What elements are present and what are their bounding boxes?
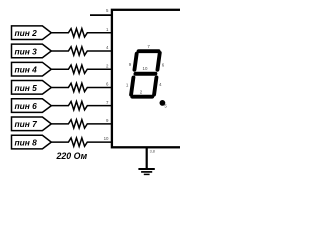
net flag пин 5 xyxy=(12,81,52,95)
pin 5 stub xyxy=(90,14,112,16)
svg-text:220 Ом: 220 Ом xyxy=(56,151,88,161)
wire / resistor R8 (пин 8) xyxy=(51,138,112,146)
segment a xyxy=(138,49,158,53)
net flag пин 2 xyxy=(12,26,52,40)
wire / resistor R2 (пин 2) xyxy=(51,29,112,37)
net flag пин 8 xyxy=(12,135,52,149)
decimal point xyxy=(160,100,166,106)
svg-text:пин 3: пин 3 xyxy=(15,46,38,56)
svg-text:4: 4 xyxy=(106,45,109,50)
segment d xyxy=(132,95,152,99)
svg-text:5: 5 xyxy=(106,8,109,13)
svg-text:пин 2: пин 2 xyxy=(15,28,38,38)
svg-text:9: 9 xyxy=(106,118,109,123)
svg-text:пин 4: пин 4 xyxy=(15,65,38,75)
wire / resistor R3 (пин 3) xyxy=(51,47,112,55)
segment f xyxy=(134,54,136,70)
svg-text:7: 7 xyxy=(106,100,109,105)
svg-text:1: 1 xyxy=(106,27,109,32)
wire / resistor R6 (пин 6) xyxy=(51,101,112,109)
svg-text:3,8: 3,8 xyxy=(150,150,155,154)
svg-text:10: 10 xyxy=(104,136,109,141)
7-segment digit xyxy=(131,51,160,97)
common cathode wire xyxy=(146,147,148,168)
ground xyxy=(138,169,154,174)
svg-text:6: 6 xyxy=(106,82,109,87)
svg-text:2: 2 xyxy=(106,63,109,68)
segment g xyxy=(135,72,155,76)
segment c xyxy=(154,77,156,94)
wire / resistor R7 (пин 7) xyxy=(51,120,112,128)
7-segment display U1 body xyxy=(112,10,212,148)
svg-text:пин 8: пин 8 xyxy=(15,137,38,147)
net flag пин 7 xyxy=(12,117,52,131)
svg-text:пин 7: пин 7 xyxy=(15,119,38,129)
segment e xyxy=(131,77,133,94)
net flag пин 6 xyxy=(12,99,52,113)
svg-text:пин 6: пин 6 xyxy=(15,101,38,111)
net flag пин 4 xyxy=(12,62,52,76)
svg-text:пин 5: пин 5 xyxy=(15,83,38,93)
net flag пин 3 xyxy=(12,44,52,58)
segment b xyxy=(157,53,159,70)
svg-text:10: 10 xyxy=(143,66,148,71)
wire / resistor R4 (пин 4) xyxy=(51,65,112,73)
wire / resistor R5 (пин 5) xyxy=(51,83,112,91)
